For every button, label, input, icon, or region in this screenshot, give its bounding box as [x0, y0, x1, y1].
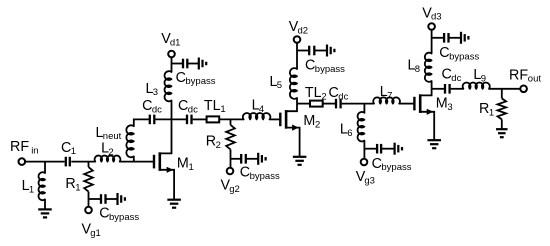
- svg-text:2: 2: [321, 92, 326, 103]
- svg-text:2: 2: [108, 147, 113, 158]
- transistor M2 gate bar: [279, 113, 281, 127]
- inductor L6: [358, 112, 365, 141]
- ground right of Cbypass g2: [257, 153, 259, 165]
- wire to Cbypass top3: [432, 37, 445, 39]
- inductor L4: [243, 113, 271, 119]
- svg-text:d2: d2: [298, 25, 309, 36]
- transistor M1 source lead: [160, 170, 174, 200]
- transistor M2 source arrow: [292, 125, 299, 131]
- ground below M2: [293, 156, 307, 158]
- wire TL2 to Cdc: [323, 103, 336, 105]
- svg-text:C: C: [372, 156, 382, 172]
- inductor L1: [38, 172, 45, 200]
- svg-text:2: 2: [216, 140, 221, 151]
- terminal RF_out: [520, 86, 527, 93]
- svg-text:1: 1: [220, 104, 225, 115]
- ground below L1: [38, 208, 52, 210]
- svg-text:1: 1: [189, 162, 194, 173]
- capacitor Cdc stage2: [335, 99, 337, 109]
- svg-text:R: R: [479, 101, 489, 117]
- wire to Cbypass g1: [89, 198, 102, 200]
- inductor L8: [425, 53, 432, 82]
- svg-text:M: M: [303, 113, 315, 129]
- wire R1 branch: [88, 162, 90, 168]
- capacitor Cdc 2: [186, 115, 188, 125]
- svg-text:dc: dc: [451, 73, 461, 84]
- wire R2 branch: [230, 119, 232, 125]
- capacitor Cbypass top2: [308, 46, 310, 56]
- wire to Cbypass top2: [297, 50, 309, 52]
- svg-text:neut: neut: [103, 131, 122, 142]
- resistor R1 output: [498, 98, 507, 119]
- svg-text:C: C: [99, 206, 109, 222]
- wire L1 to ground: [44, 199, 46, 209]
- transistor M1 gate bar: [153, 155, 155, 169]
- wire Cdc1 to drain node: [155, 118, 187, 120]
- ground below M1: [167, 199, 181, 201]
- svg-text:C: C: [305, 57, 315, 73]
- svg-text:C: C: [178, 98, 188, 114]
- terminal Vd1: [168, 51, 175, 58]
- capacitor Cbypass g2: [240, 154, 242, 164]
- transmission line TL2: [310, 101, 323, 107]
- transistor M3 source arrow: [427, 109, 434, 115]
- ground right of Cbypass top1: [198, 58, 200, 70]
- inductor L2: [95, 156, 121, 162]
- transistor M2 drain lead: [286, 104, 297, 112]
- wire Cdc to L7: [342, 103, 374, 105]
- terminal Vd2: [294, 36, 301, 43]
- svg-text:C: C: [240, 165, 250, 181]
- terminal Vd3: [428, 23, 435, 30]
- transmission line TL1: [207, 116, 220, 122]
- terminal Vg1: [85, 207, 92, 214]
- svg-text:RF: RF: [509, 67, 528, 83]
- terminal Vg2: [227, 168, 234, 175]
- wire Cdc2 to TL1: [193, 118, 207, 120]
- transistor M3 source lead: [420, 112, 434, 140]
- wire Rout to ground: [501, 119, 503, 129]
- svg-text:TL: TL: [204, 98, 221, 114]
- wire L4 to M2 gate: [270, 118, 280, 120]
- wire to Cbypass g2: [231, 158, 242, 160]
- inductor L3: [164, 71, 171, 101]
- wire Rout branch: [501, 89, 503, 99]
- wire to Cbypass g3: [364, 148, 377, 150]
- svg-text:C: C: [61, 140, 71, 156]
- inductor L7: [373, 97, 400, 103]
- wire Cbypass g1 to ground: [106, 198, 118, 200]
- svg-text:g1: g1: [90, 228, 101, 239]
- transistor M2 channel: [285, 110, 288, 129]
- svg-text:C: C: [176, 70, 186, 86]
- svg-text:1: 1: [29, 185, 34, 196]
- ground right of Cbypass g3: [394, 143, 396, 155]
- svg-text:dc: dc: [188, 105, 198, 116]
- svg-text:M: M: [436, 96, 448, 112]
- node L1 junction: [44, 162, 46, 173]
- inductor Lneut: [126, 125, 133, 157]
- wire L3 to drain wire: [171, 101, 173, 120]
- wire Cbypass top2 to ground: [314, 50, 327, 52]
- wire L5 to drain wire: [296, 98, 298, 104]
- wire Lneut top corner: [134, 119, 150, 126]
- svg-text:out: out: [528, 74, 542, 85]
- svg-text:C: C: [329, 85, 339, 101]
- svg-text:dc: dc: [152, 105, 162, 116]
- wire RFin to C1: [25, 161, 64, 163]
- terminal RF_in: [19, 158, 26, 165]
- wire to Cbypass top1: [172, 63, 184, 65]
- svg-text:C: C: [142, 98, 152, 114]
- capacitor Cbypass top1: [182, 59, 184, 69]
- wire R2 to Vg2 node: [230, 149, 232, 167]
- svg-text:1: 1: [75, 182, 80, 193]
- svg-text:R: R: [206, 134, 216, 150]
- svg-text:3: 3: [447, 102, 452, 113]
- svg-text:g2: g2: [229, 184, 240, 195]
- wire Cbypass top1 to ground: [187, 63, 199, 65]
- transistor M1 source arrow: [167, 167, 174, 173]
- svg-text:bypass: bypass: [185, 76, 215, 87]
- wire L7 to M3 gate: [399, 103, 413, 105]
- svg-text:g3: g3: [364, 176, 375, 187]
- resistor R1: [84, 167, 93, 192]
- capacitor C1: [65, 157, 67, 167]
- terminal Vg3: [361, 159, 368, 166]
- wire L3 to Vd1 node: [171, 57, 173, 72]
- wire drain M3 to Cdc: [432, 88, 445, 90]
- svg-text:6: 6: [347, 128, 352, 139]
- capacitor Cbypass g3: [376, 144, 378, 154]
- wire Cbypass g2 to ground: [246, 158, 258, 160]
- wire Cbypass g3 to ground: [381, 148, 395, 150]
- svg-text:M: M: [177, 156, 189, 172]
- svg-text:8: 8: [415, 64, 420, 75]
- resistor R2: [226, 125, 235, 149]
- svg-text:3: 3: [153, 87, 158, 98]
- ground right of Cbypass g1: [116, 193, 118, 205]
- capacitor Cdc 1: [149, 115, 151, 125]
- svg-text:1: 1: [489, 107, 494, 118]
- svg-text:d3: d3: [431, 12, 442, 23]
- wire C1 to L2: [71, 161, 95, 163]
- transistor M1 drain lead: [160, 119, 172, 153]
- svg-text:in: in: [31, 146, 38, 157]
- transistor M3 gate bar: [413, 97, 415, 111]
- inductor L9: [463, 82, 490, 88]
- wire Cdc to L9: [451, 88, 464, 90]
- transistor M3 channel: [419, 94, 422, 113]
- svg-text:bypass: bypass: [109, 212, 139, 223]
- svg-text:C: C: [442, 66, 452, 82]
- capacitor Cdc stage3: [444, 84, 446, 94]
- svg-text:TL: TL: [305, 85, 322, 101]
- transistor M1 channel: [159, 152, 162, 171]
- wire L5 to Vd2 node: [296, 43, 298, 69]
- inductor L5: [290, 68, 297, 99]
- transistor M3 drain lead: [420, 89, 431, 96]
- svg-text:5: 5: [277, 80, 282, 91]
- svg-text:RF: RF: [10, 139, 29, 155]
- ground below R1 output: [496, 128, 508, 130]
- wire L2 to M1 gate: [120, 161, 153, 163]
- wire R1 to Vg1 node: [88, 192, 90, 207]
- ground right of Cbypass top3: [460, 32, 462, 44]
- capacitor Cbypass top3: [443, 33, 445, 43]
- wire L8 to drain wire: [431, 81, 433, 89]
- svg-text:R: R: [65, 176, 75, 192]
- svg-text:bypass: bypass: [381, 162, 411, 173]
- wire Cbypass top3 to ground: [449, 37, 462, 39]
- svg-text:d1: d1: [170, 38, 181, 49]
- wire Lneut stub: [133, 156, 135, 161]
- svg-text:C: C: [439, 45, 449, 61]
- svg-text:2: 2: [315, 119, 320, 130]
- wire L8 to Vd3 node: [431, 30, 433, 54]
- svg-text:7: 7: [387, 90, 392, 101]
- svg-text:bypass: bypass: [250, 171, 280, 182]
- svg-text:bypass: bypass: [315, 64, 345, 75]
- wire TL1 to L4: [219, 118, 243, 120]
- capacitor Cbypass g1: [100, 194, 102, 204]
- transistor M2 source lead: [286, 128, 300, 157]
- svg-text:1: 1: [71, 146, 76, 157]
- svg-text:dc: dc: [338, 92, 348, 103]
- wire L6 branch: [363, 104, 365, 113]
- svg-text:4: 4: [259, 104, 264, 115]
- svg-text:bypass: bypass: [449, 51, 479, 62]
- ground right of Cbypass top2: [326, 45, 328, 57]
- wire L6 to Vg3 node: [363, 141, 365, 159]
- wire drain M2 to TL2: [297, 103, 310, 105]
- wire L9 to RFout: [489, 88, 520, 90]
- ground below M3: [427, 139, 441, 141]
- svg-text:9: 9: [481, 74, 486, 85]
